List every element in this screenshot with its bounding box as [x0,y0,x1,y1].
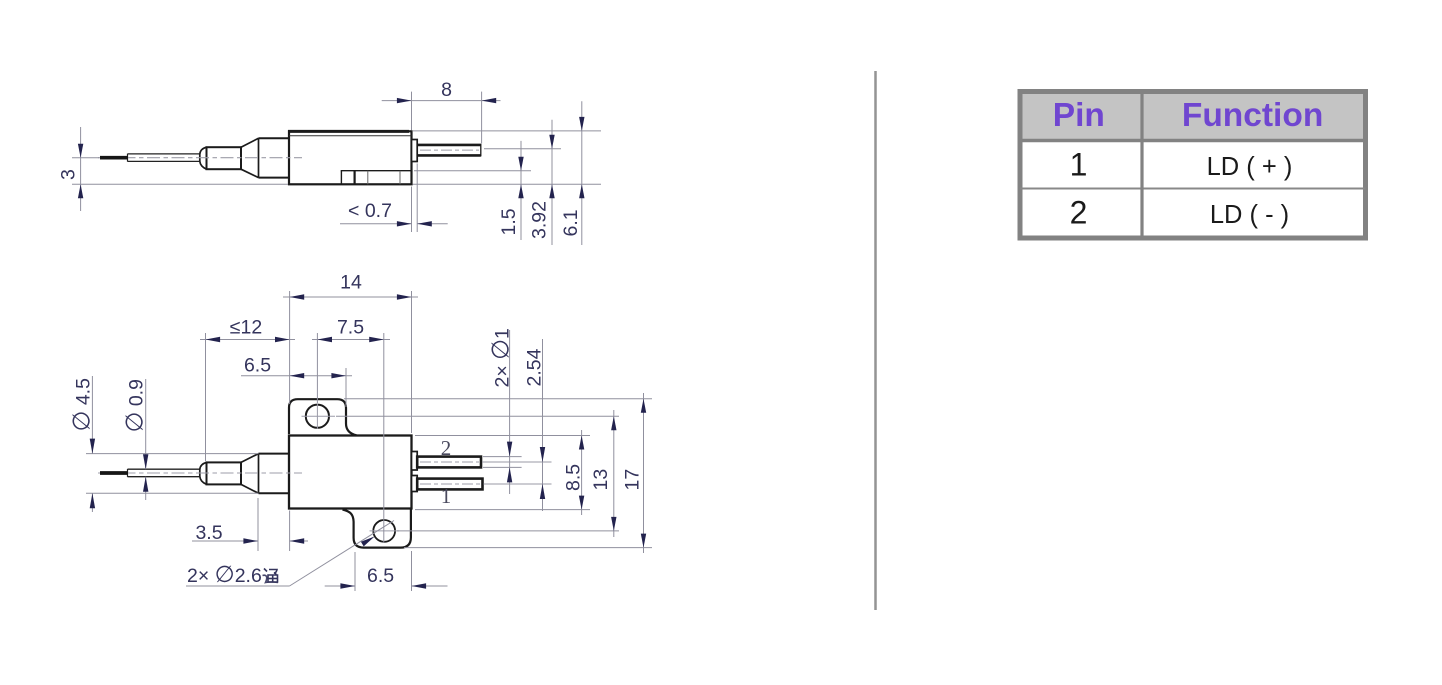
side view: ferrule tip [200,147,207,169]
side view: package body [288,131,412,184]
svg-text:LD ( - ): LD ( - ) [1210,201,1289,229]
svg-text:LD ( + ): LD ( + ) [1207,153,1293,181]
right extension lines (side view) [413,131,601,171]
svg-text:2: 2 [1070,195,1088,231]
bottom view: bottom mounting flange [343,510,411,548]
table header Function [1182,97,1323,134]
svg-text:1: 1 [441,484,452,508]
bottom view: ferrule cylinder [207,462,242,484]
svg-text:2: 2 [441,436,452,460]
bottom view: pin 1 lead [417,479,551,490]
svg-text:7.5: 7.5 [337,317,364,339]
side view: cone [241,138,259,177]
leader label 2x diameter 2.6 through [186,521,394,588]
bottom view: pin 2 bump [412,452,418,471]
bottom view: pin 1 bump [412,476,418,492]
svg-text:1.5: 1.5 [498,208,520,235]
dimension 8.5 [415,430,590,515]
dimension diameter 4.5 [69,376,259,512]
svg-text:6.5: 6.5 [367,565,394,587]
svg-text:17: 17 [622,469,644,491]
divider line [874,71,877,610]
side view: fiber pigtail [100,154,201,162]
bottom view: top mounting flange [289,399,357,435]
bottom view: ferrule tip [200,462,207,484]
svg-text:≤12: ≤12 [230,317,262,339]
svg-text:∅ 0.9: ∅ 0.9 [122,379,149,432]
svg-text:1: 1 [1070,147,1088,183]
pin number 2 label [441,436,452,460]
dimension 1.5 [498,141,524,240]
bottom view: fiber centerline [98,472,302,474]
svg-text:3.5: 3.5 [195,522,222,544]
svg-text:2× ∅1: 2× ∅1 [488,328,515,387]
dimension 2.54 [524,339,546,511]
dimension 2x diameter 1 [483,328,522,494]
table row 2 pin number [1070,195,1088,231]
dimension 3.5 [192,498,308,551]
svg-text:3.92: 3.92 [529,201,551,239]
dimension ≤12 [200,317,295,462]
bottom view: fiber pigtail [100,469,201,477]
svg-text:8.5: 8.5 [563,464,585,491]
dimension 3.92 [529,120,555,245]
svg-text:3: 3 [58,169,80,180]
bottom view: pin 2 lead [417,457,551,468]
side view: ferrule cylinder [207,147,242,169]
svg-text:< 0.7: < 0.7 [348,200,392,222]
bottom view: boot cylinder [259,454,290,494]
bottom view: bottom flange hole [370,520,400,542]
bottom plane extension line [72,183,601,185]
side view: bottom step notch [341,171,412,185]
svg-text:13: 13 [590,469,612,491]
dimension 17 [344,393,652,553]
table row 1 function LD(+) [1207,153,1293,181]
bottom view: cone [241,454,259,494]
svg-text:8: 8 [441,79,452,101]
dimension 3 (left) [58,127,100,211]
dimension diameter 0.9 [122,379,149,500]
side view: pin lead [417,144,481,157]
svg-text:Function: Function [1182,97,1323,134]
side view: fiber centerline [98,157,302,159]
side view: boot cylinder [259,138,290,177]
dimension < 0.7 [340,164,448,233]
table header Pin [1053,97,1105,134]
table row 2 function LD(-) [1210,201,1289,229]
svg-text:6.5: 6.5 [244,355,271,377]
svg-text:2.54: 2.54 [524,348,546,386]
table row 1 pin number [1070,147,1088,183]
svg-text:2× ∅2.6: 2× ∅2.6 [187,561,262,587]
dimension 6.5 (bottom) [325,551,448,591]
dimension 6.5 (top) [241,355,352,408]
svg-text:6.1: 6.1 [560,209,582,236]
svg-text:Pin: Pin [1053,97,1105,134]
dimension 7.5 [312,317,390,544]
pin function table [1020,92,1366,239]
side view: pin base bump [412,140,418,162]
dimension 14 [283,272,418,434]
pin number 1 label [441,484,452,508]
dimension 13 [336,410,619,537]
svg-text:∅ 4.5: ∅ 4.5 [69,378,96,432]
svg-text:14: 14 [340,272,362,294]
dimension 6.1 [560,101,585,245]
bottom view: top flange hole [302,404,336,429]
bottom view: package body [289,436,412,509]
dimension 8 (top) [382,79,501,144]
